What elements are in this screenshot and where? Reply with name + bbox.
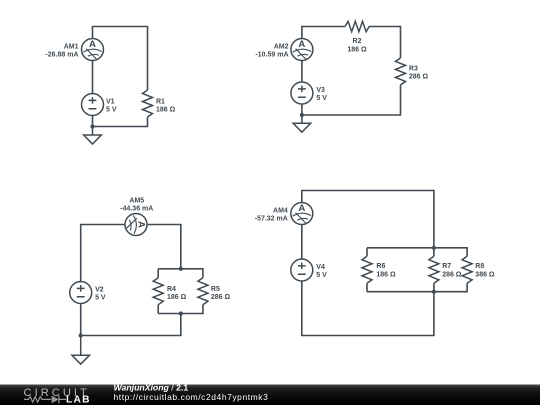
svg-text:V1: V1 xyxy=(106,99,115,106)
svg-text:386 Ω: 386 Ω xyxy=(475,272,495,279)
svg-text:-26.88 mA: -26.88 mA xyxy=(45,51,78,58)
svg-text:V3: V3 xyxy=(316,87,325,94)
svg-text:R7: R7 xyxy=(442,263,451,270)
svg-text:286 Ω: 286 Ω xyxy=(442,272,462,279)
svg-text:186 Ω: 186 Ω xyxy=(347,47,367,54)
svg-text:186 Ω: 186 Ω xyxy=(167,294,187,301)
svg-text:AM2: AM2 xyxy=(274,44,289,51)
svg-text:R3: R3 xyxy=(409,66,418,73)
svg-text:5 V: 5 V xyxy=(316,272,327,279)
svg-text:WanjunXiong / 2.1: WanjunXiong / 2.1 xyxy=(114,382,189,392)
svg-text:186 Ω: 186 Ω xyxy=(156,107,176,114)
svg-text:-44.36 mA: -44.36 mA xyxy=(120,206,153,213)
svg-text:-10.59 mA: -10.59 mA xyxy=(255,51,288,58)
svg-text:R1: R1 xyxy=(156,99,165,106)
svg-text:AM5: AM5 xyxy=(129,197,144,204)
svg-text:R6: R6 xyxy=(376,263,385,270)
svg-text:R4: R4 xyxy=(167,286,176,293)
svg-text:V2: V2 xyxy=(95,287,104,294)
svg-text:5 V: 5 V xyxy=(106,107,117,114)
svg-text:AM4: AM4 xyxy=(273,208,288,215)
svg-text:LAB: LAB xyxy=(66,395,91,405)
svg-text:5 V: 5 V xyxy=(316,95,327,102)
svg-text:286 Ω: 286 Ω xyxy=(211,294,231,301)
svg-text:R8: R8 xyxy=(475,263,484,270)
svg-text:-57.32 mA: -57.32 mA xyxy=(255,215,288,222)
svg-text:286 Ω: 286 Ω xyxy=(409,74,429,81)
svg-text:http://circuitlab.com/c2d4h7yp: http://circuitlab.com/c2d4h7ypntmk3 xyxy=(114,392,269,402)
svg-text:186 Ω: 186 Ω xyxy=(376,272,396,279)
svg-text:5 V: 5 V xyxy=(95,295,106,302)
svg-text:R5: R5 xyxy=(211,286,220,293)
svg-text:R2: R2 xyxy=(353,38,362,45)
svg-text:V4: V4 xyxy=(316,264,325,271)
svg-text:AM1: AM1 xyxy=(64,44,79,51)
